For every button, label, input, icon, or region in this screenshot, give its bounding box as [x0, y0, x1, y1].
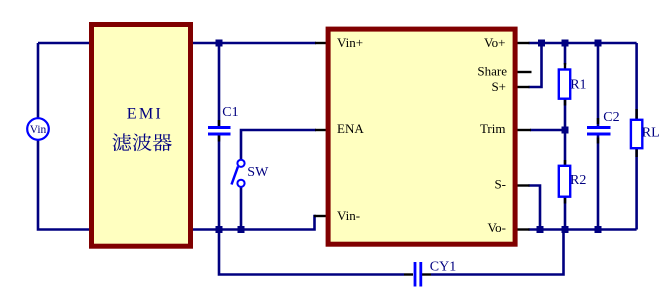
pin stub Share — [517, 71, 532, 73]
wire bottom rail EMI to Vin- — [191, 216, 316, 230]
svg-text:RL: RL — [642, 126, 660, 141]
pin stub R2 top — [564, 160, 566, 166]
pin stub Vo- — [517, 228, 530, 230]
capacitor C2 plates — [587, 128, 611, 135]
svg-text:S+: S+ — [491, 79, 506, 94]
wire top-right rail Vo+ — [529, 42, 637, 45]
wire CY1 left — [219, 230, 404, 275]
node C2/bottom rail — [595, 226, 602, 233]
node Trim/R1/R2 — [562, 127, 569, 134]
EMI CJK text 滤波器 — [112, 133, 171, 151]
pin stub Vin- — [314, 215, 327, 217]
wire C1 to bottom rail — [218, 136, 221, 230]
pin stub Trim — [517, 129, 532, 131]
source Vin circle — [27, 118, 49, 140]
wire S+ riser — [529, 43, 542, 87]
wire top-left rail — [38, 42, 91, 45]
node S+ riser/top rail — [538, 40, 545, 47]
wire R1 top lead — [564, 43, 567, 65]
node R1/top rail — [562, 40, 569, 47]
wire C1 branch vertical — [218, 43, 221, 126]
svg-text:Share: Share — [477, 64, 507, 79]
node SW/bottom rail — [238, 226, 245, 233]
resistor R1 — [559, 70, 570, 99]
wire SW to bottom rail — [240, 187, 243, 230]
svg-text:Vo+: Vo+ — [484, 35, 506, 50]
wire S- drop — [529, 186, 541, 230]
capacitor C1 plates — [208, 128, 231, 135]
wire ENA to SW — [241, 130, 316, 160]
wire EMI to module Vin+ — [191, 42, 316, 45]
pin stub S- — [517, 184, 530, 186]
svg-text:Vo-: Vo- — [487, 220, 506, 235]
svg-text:Vin+: Vin+ — [337, 35, 363, 50]
svg-text:Vin: Vin — [30, 124, 47, 136]
resistor R2 — [559, 166, 570, 197]
pin stub RL top — [635, 109, 637, 119]
node S-/bottom rail — [537, 226, 544, 233]
module box U1 — [328, 29, 515, 244]
node C2/top rail — [595, 40, 602, 47]
node R2/bottom rail — [562, 226, 569, 233]
pin stub Vo+ — [517, 42, 530, 44]
EMI filter box — [92, 25, 191, 247]
pin stub C2 bottom — [597, 138, 599, 144]
switch SW — [237, 160, 244, 187]
svg-text:Trim: Trim — [480, 121, 506, 136]
wire RL bottom lead — [635, 149, 638, 230]
wire bottom-right rail Vo- — [529, 228, 637, 231]
pin stub CY1 left — [404, 273, 413, 275]
svg-text:C2: C2 — [603, 110, 619, 125]
pin stub RL bottom — [635, 149, 637, 158]
wire C2 top lead — [597, 43, 600, 126]
svg-text:Vin-: Vin- — [337, 208, 360, 223]
svg-text:R1: R1 — [570, 78, 586, 93]
wire R2 top lead — [564, 130, 567, 166]
svg-text:ENA: ENA — [337, 121, 364, 136]
svg-text:EMI: EMI — [127, 105, 163, 123]
pin stub ENA — [315, 129, 327, 131]
svg-text:CY1: CY1 — [430, 259, 456, 274]
wire R2 bottom to rail — [564, 197, 567, 230]
pin stub R1 top — [564, 63, 566, 69]
wire CY1 right — [431, 230, 564, 275]
pin stub R1 bottom — [564, 100, 566, 106]
node C1/bottom rail — [216, 226, 223, 233]
wire C2 bottom lead — [597, 136, 600, 230]
svg-text:C1: C1 — [222, 105, 238, 120]
pin stub R2 bottom — [564, 198, 566, 204]
pin stub C1 top — [218, 120, 220, 126]
resistor RL — [631, 120, 642, 148]
svg-text:S-: S- — [494, 176, 506, 191]
node C1/top rail — [216, 40, 223, 47]
wire left vertical top (Vin to top rail) — [37, 43, 40, 119]
pin stub C1 bottom — [218, 136, 220, 142]
capacitor CY1 plates — [415, 262, 421, 287]
pin stub S+ — [517, 86, 530, 88]
pin stub C2 top — [597, 118, 599, 124]
pin stub CY1 right — [422, 273, 431, 275]
wire left vertical bottom (Vin to bottom rail) — [38, 140, 91, 230]
svg-text:SW: SW — [247, 165, 269, 180]
wire RL top lead — [635, 43, 638, 119]
pin stub Vin+ — [315, 42, 327, 44]
wire Trim — [530, 129, 565, 132]
wire R1 bottom to Trim node — [564, 99, 567, 131]
svg-text:R2: R2 — [570, 173, 586, 188]
